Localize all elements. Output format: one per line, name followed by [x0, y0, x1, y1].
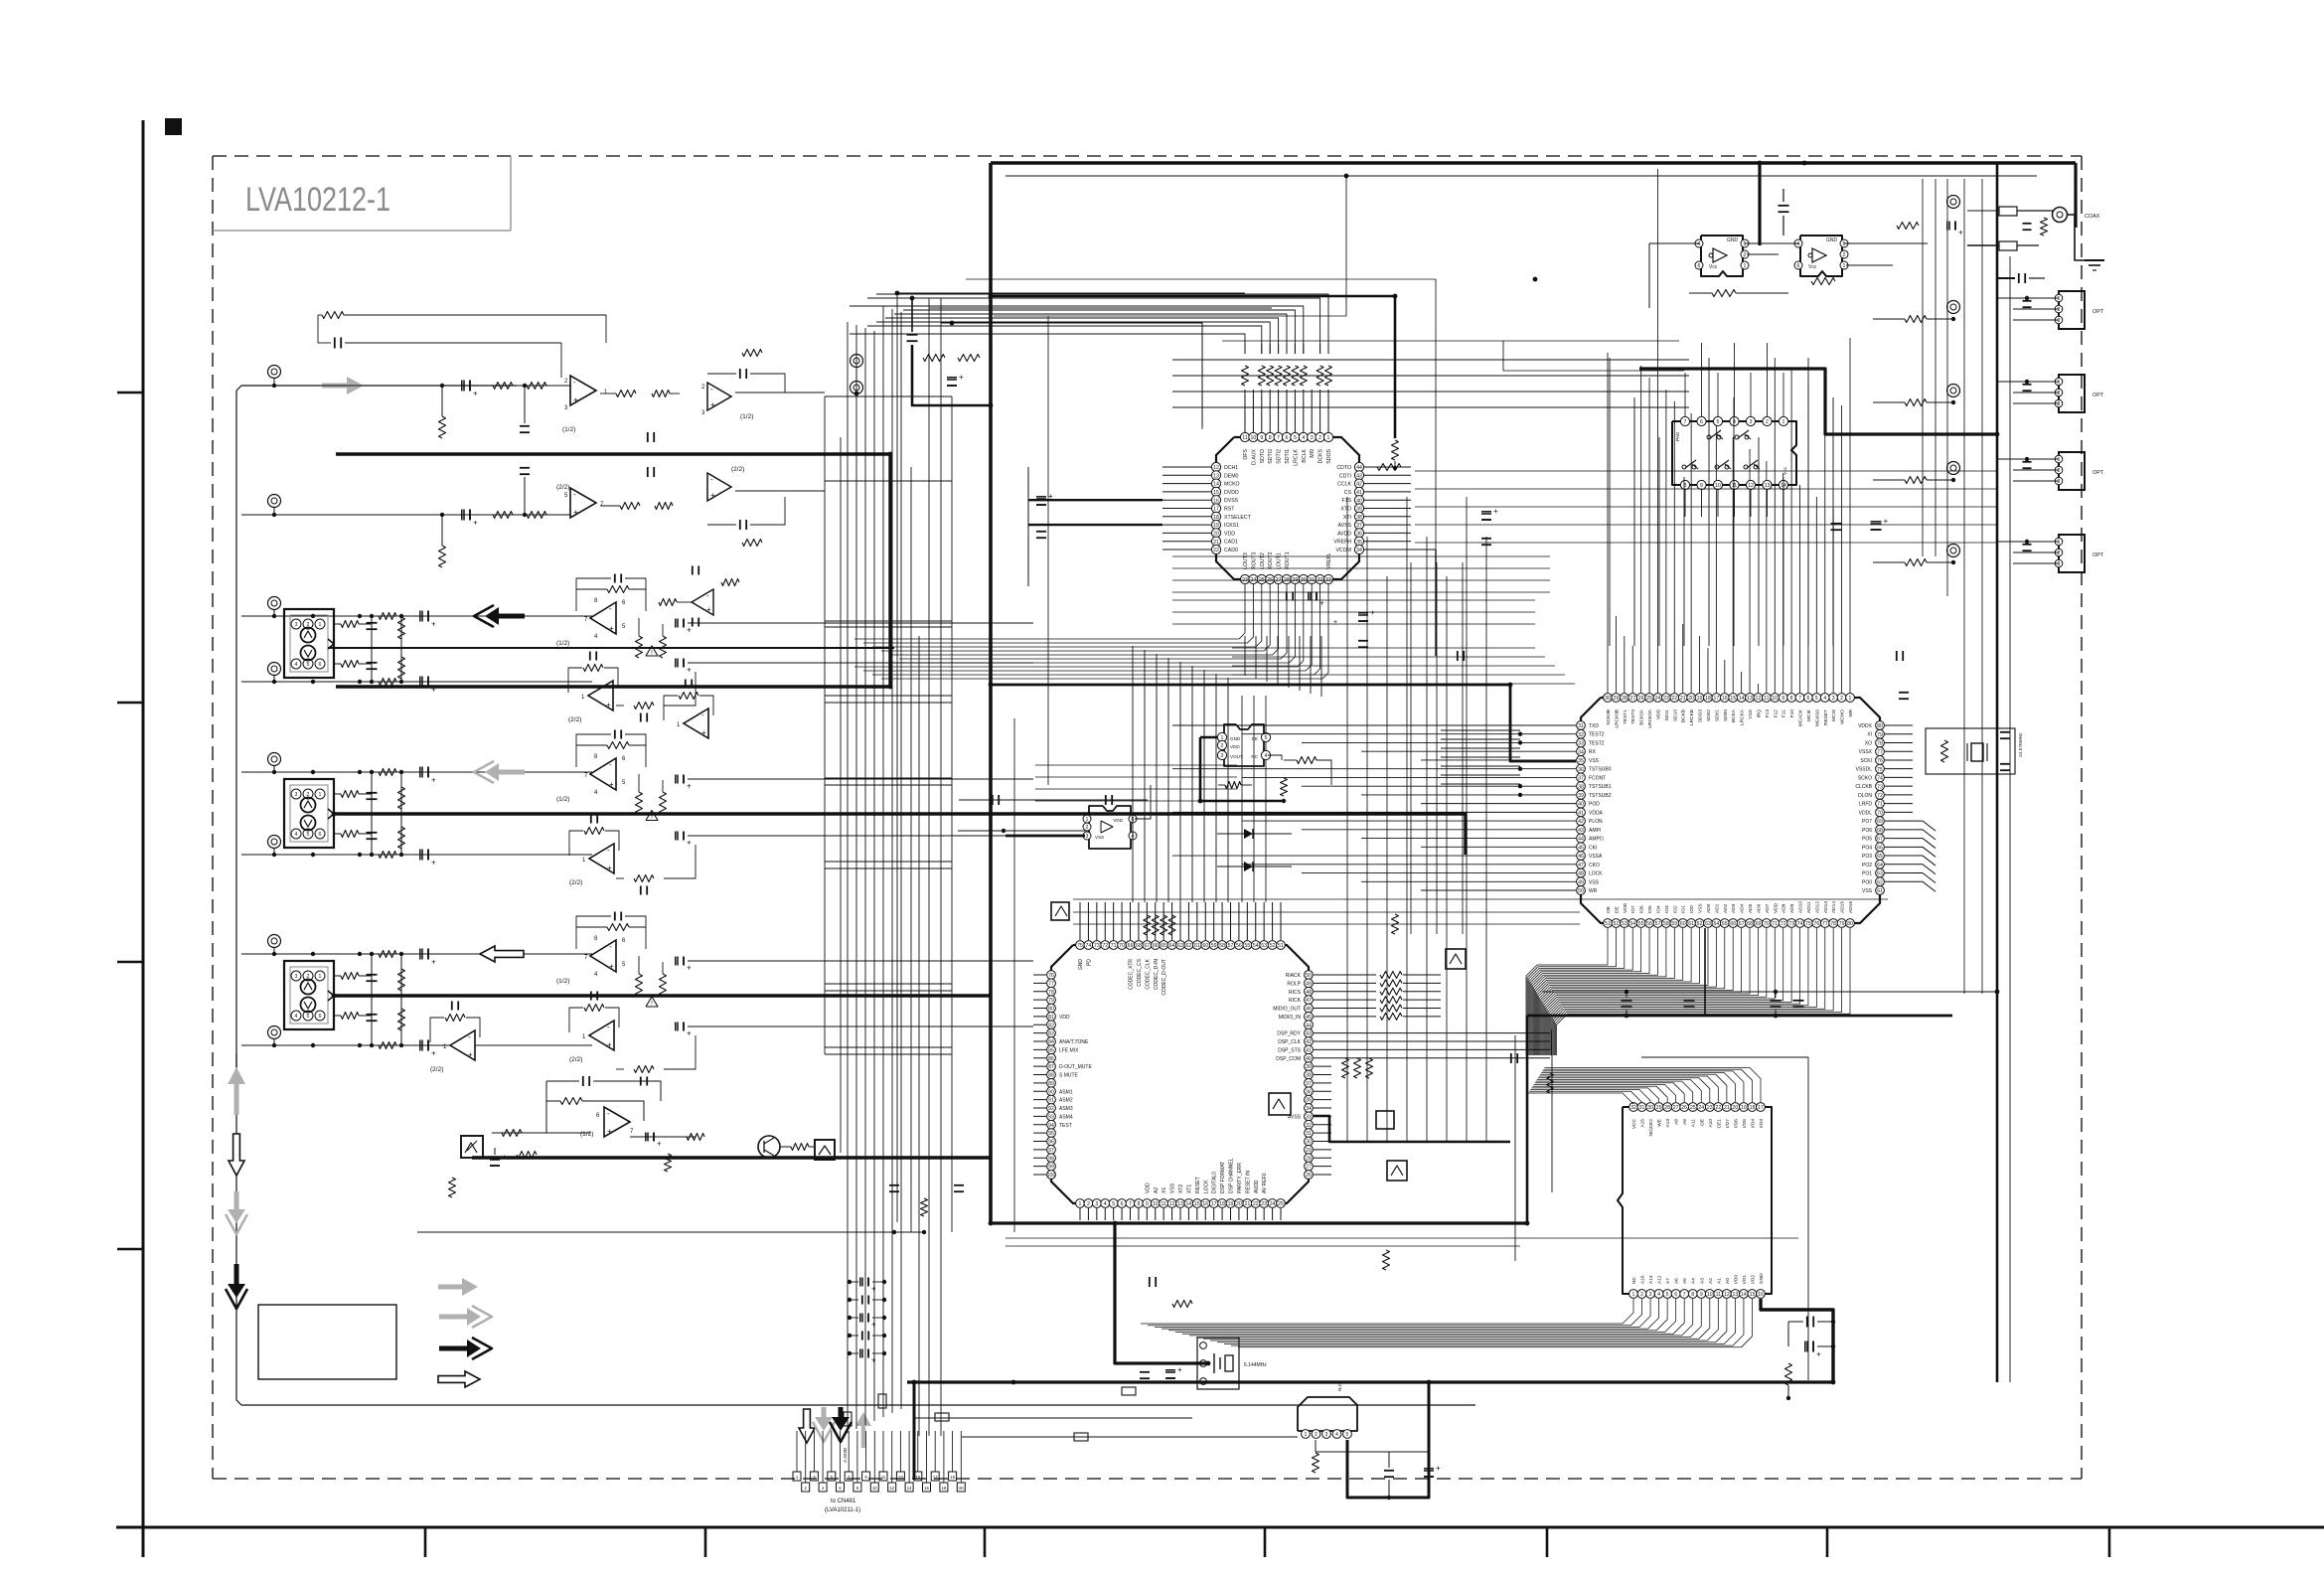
- transistor Q401: [1269, 1093, 1291, 1115]
- wire fb2 2: [664, 696, 678, 720]
- svg-text:+: +: [431, 859, 436, 867]
- svg-text:72: 72: [1102, 943, 1108, 949]
- svg-text:I/O1: I/O1: [1742, 1275, 1748, 1284]
- svg-text:88: 88: [1048, 1073, 1054, 1079]
- wire cv21308: [1299, 636, 1301, 691]
- wire drh771: [1441, 765, 1480, 767]
- svg-text:12: 12: [1724, 1292, 1730, 1298]
- wire dr735: [1441, 729, 1520, 731]
- wire IC402 top 14: [1724, 660, 1726, 693]
- wire g5 in: [492, 1132, 590, 1134]
- svg-text:6: 6: [1674, 1292, 1677, 1298]
- svg-text:78: 78: [1048, 990, 1054, 996]
- wire bt1745: [1733, 397, 1735, 646]
- resistor R210: [1905, 316, 1927, 323]
- resistor Rd1: [1383, 1250, 1390, 1270]
- svg-text:22: 22: [1253, 1201, 1259, 1207]
- svg-text:RESET: RESET: [1823, 709, 1829, 725]
- svg-text:56: 56: [1236, 943, 1242, 949]
- wire gdsp794: [1035, 788, 1237, 790]
- capacitor C209: [685, 680, 687, 689]
- capacitor Cb4: [859, 1349, 861, 1358]
- capacitor C207 electrolytic: [1946, 222, 1948, 231]
- resistor R102v: [439, 546, 446, 567]
- svg-text:15: 15: [1194, 1201, 1200, 1207]
- svg-text:36: 36: [1578, 767, 1584, 773]
- wire IC403 bot 4: [1168, 1299, 1667, 1331]
- svg-text:+: +: [1436, 1464, 1441, 1473]
- gnd symbol: [2085, 259, 2104, 261]
- resistor R112: [742, 350, 762, 357]
- wire cx604: [1172, 599, 1535, 601]
- wire top t: [912, 345, 991, 405]
- svg-text:-: -: [573, 490, 576, 499]
- resistor R402: [341, 1013, 359, 1020]
- wire gdsp770: [1035, 764, 1237, 766]
- svg-text:to CN481: to CN481: [831, 1498, 856, 1504]
- svg-text:IO2: IO2: [1672, 905, 1678, 913]
- svg-text:41: 41: [1356, 490, 1362, 496]
- capacitor C432 electrolytic: [1804, 1341, 1806, 1352]
- svg-text:52: 52: [1614, 921, 1620, 927]
- svg-text:LOUT2: LOUT2: [1260, 552, 1266, 569]
- svg-text:79: 79: [1877, 732, 1883, 738]
- wire IC402 top 9: [1682, 624, 1684, 693]
- svg-text:39: 39: [1578, 793, 1584, 799]
- capacitor C109: [739, 520, 741, 530]
- wire right v2023: [2009, 256, 2011, 1382]
- svg-text:9: 9: [1146, 1201, 1149, 1207]
- transistor Q405: [1446, 949, 1466, 969]
- wire IC301 top 2: [867, 326, 1262, 354]
- svg-text:50: 50: [1306, 973, 1312, 979]
- svg-text:MCKO: MCKO: [1224, 482, 1240, 488]
- svg-text:AVDD: AVDD: [1337, 531, 1351, 537]
- wire ch661: [1232, 656, 1545, 658]
- wire rail r3: [1006, 1245, 1520, 1247]
- wire long y874: [825, 867, 952, 869]
- resistor R107: [322, 312, 344, 319]
- svg-text:+: +: [1048, 492, 1053, 501]
- svg-text:-: -: [607, 846, 610, 855]
- svg-text:OPT: OPT: [2092, 552, 2104, 558]
- svg-text:33: 33: [1306, 1114, 1312, 1120]
- svg-text:14: 14: [1186, 1201, 1192, 1207]
- svg-text:CAD1: CAD1: [1224, 540, 1238, 546]
- svg-text:D-OUT_MUTE: D-OUT_MUTE: [1059, 1064, 1092, 1070]
- IC302 thick feed: [1200, 737, 1284, 801]
- legend arrow black chevron: [467, 1340, 481, 1357]
- signal arrow gray group3: [485, 763, 499, 781]
- capacitor C441: [1384, 1470, 1394, 1472]
- svg-text:63: 63: [1705, 921, 1711, 927]
- svg-text:10: 10: [1251, 435, 1257, 441]
- svg-text:20: 20: [1733, 1105, 1739, 1111]
- wire IC403 bot 1: [1148, 1299, 1642, 1326]
- wire IC402 bot 15: [1542, 928, 1733, 1055]
- svg-text:AD2: AD2: [1723, 903, 1729, 913]
- wire IC403 top 13: [1542, 1071, 1744, 1102]
- wire IC402 top 19: [1766, 461, 1768, 693]
- left border tick y1257: [117, 1248, 143, 1251]
- wire loop v1355: [994, 176, 1346, 316]
- capacitor C424: [1896, 651, 1898, 661]
- svg-text:GND: GND: [1078, 959, 1084, 971]
- IC203 switch symbols: [1707, 435, 1711, 439]
- svg-text:AD11: AD11: [1806, 901, 1812, 913]
- wire IC402 top 23: [1799, 485, 1801, 693]
- svg-text:26: 26: [1638, 696, 1644, 702]
- wire IC402 left 1: [1242, 733, 1576, 735]
- wire IC402 bot 27: [1554, 928, 1833, 1055]
- svg-text:I/O6: I/O6: [1733, 1119, 1739, 1128]
- wire group4 lower: [241, 1044, 592, 1046]
- wire IC402 left 19: [1421, 889, 1576, 891]
- wire top h3: [941, 323, 1202, 427]
- svg-text:TSTSUB2: TSTSUB2: [1589, 793, 1612, 799]
- capacitor C208 electrolytic: [675, 619, 677, 628]
- resistor R213: [634, 703, 654, 709]
- svg-text:AMPO: AMPO: [1589, 837, 1604, 843]
- svg-text:1: 1: [319, 792, 322, 798]
- wire IC402 bot 7: [1533, 928, 1666, 1055]
- svg-text:(1/2): (1/2): [556, 640, 569, 647]
- svg-text:44: 44: [1356, 465, 1362, 471]
- svg-text:55: 55: [1638, 921, 1644, 927]
- svg-text:2: 2: [1843, 252, 1846, 258]
- resistor R303: [398, 787, 405, 809]
- resistor R204: [398, 657, 405, 679]
- capacitor C310: [640, 886, 642, 895]
- svg-text:23: 23: [1261, 1201, 1267, 1207]
- svg-text:20: 20: [1688, 696, 1694, 702]
- svg-text:MI9: MI9: [1310, 449, 1316, 458]
- IC401 bottom stubs: [1079, 1208, 1081, 1220]
- resistor R202: [341, 661, 359, 668]
- wire chb560: [1172, 555, 1550, 557]
- resistor Rd2: [1547, 1073, 1554, 1093]
- svg-text:30: 30: [1647, 1105, 1653, 1111]
- svg-text:A4: A4: [1691, 1278, 1697, 1284]
- svg-text:VOUT: VOUT: [1230, 754, 1243, 759]
- svg-text:SCKO: SCKO: [1858, 775, 1872, 781]
- svg-text:MIDIO_IN: MIDIO_IN: [1279, 1015, 1302, 1021]
- capacitor Cb3: [861, 1332, 863, 1340]
- wire dr762: [1441, 756, 1520, 758]
- svg-text:2: 2: [2058, 551, 2061, 556]
- svg-text:(2/2): (2/2): [568, 716, 581, 723]
- svg-text:+: +: [431, 620, 436, 629]
- svg-text:7: 7: [1684, 419, 1687, 425]
- svg-text:3: 3: [2058, 479, 2061, 485]
- svg-text:RICK: RICK: [1289, 998, 1302, 1004]
- svg-text:81: 81: [1048, 1015, 1054, 1021]
- svg-text:37: 37: [1306, 1081, 1312, 1087]
- wire top h1: [897, 292, 1245, 294]
- svg-text:Vcc: Vcc: [1709, 264, 1718, 270]
- capacitor C401: [367, 974, 378, 976]
- svg-text:68: 68: [1136, 943, 1142, 949]
- wire g1 upper: [241, 385, 570, 387]
- resistor R203: [1897, 223, 1919, 230]
- wire IC402 top 27: [1832, 509, 1834, 693]
- svg-text:90: 90: [1048, 1089, 1054, 1095]
- svg-text:PO0: PO0: [1862, 879, 1872, 885]
- resistor R505: [665, 1154, 672, 1172]
- IC403 top pins: [1629, 1103, 1638, 1112]
- svg-text:96: 96: [1048, 1140, 1054, 1146]
- ferrite beads bottom: [844, 1412, 852, 1426]
- node J4a input ring: [268, 935, 281, 948]
- svg-text:+: +: [431, 776, 436, 785]
- svg-text:39: 39: [1306, 1064, 1312, 1070]
- svg-text:4: 4: [1104, 1201, 1107, 1207]
- resistor R322: [1281, 778, 1288, 796]
- svg-text:12: 12: [889, 1486, 894, 1491]
- svg-text:65: 65: [1877, 854, 1883, 860]
- svg-text:71: 71: [1877, 802, 1883, 808]
- svg-text:11: 11: [1161, 1201, 1165, 1207]
- wire CN481 pin9 riser: [865, 1431, 867, 1472]
- svg-text:MR: MR: [1848, 709, 1854, 716]
- wire IC402 left 7: [1302, 785, 1576, 787]
- wire IC403 bot 12: [1224, 1299, 1735, 1343]
- resistor R201: [341, 621, 359, 628]
- signal arrow black group2: [485, 607, 499, 625]
- bottom tick x710: [704, 1527, 707, 1557]
- svg-text:75: 75: [1877, 767, 1883, 773]
- wire IC402 left 9: [1421, 803, 1576, 805]
- wire loop2: [956, 323, 1202, 429]
- op-amp U4A: [590, 940, 616, 972]
- resistor R209: [721, 579, 739, 586]
- svg-text:3: 3: [1832, 696, 1835, 702]
- svg-text:LRCKA: LRCKA: [1740, 709, 1746, 725]
- svg-text:42: 42: [1356, 482, 1362, 488]
- svg-text:CCLK: CCLK: [1337, 482, 1351, 488]
- wire tr394: [1172, 391, 1689, 393]
- op-amp U4C: [450, 1030, 475, 1060]
- resistor R304: [398, 827, 405, 849]
- wire IC402 left 18: [1361, 880, 1576, 882]
- svg-text:99: 99: [1048, 1165, 1054, 1171]
- svg-text:VSSDL: VSSDL: [1856, 767, 1873, 773]
- resistor R213: [1905, 559, 1927, 566]
- resistor R403: [398, 969, 405, 991]
- IC202 inverter B pins: [1794, 239, 1802, 247]
- wire cn402 top: [1316, 1451, 1429, 1453]
- resistor R205: [2041, 218, 2048, 236]
- svg-text:11: 11: [881, 1475, 886, 1480]
- wire cv1176: [1167, 658, 1169, 902]
- svg-text:VDD: VDD: [1623, 902, 1628, 913]
- resistor R412: [584, 1005, 604, 1012]
- svg-text:40: 40: [1356, 498, 1362, 504]
- wire IC403 bot 8: [1196, 1299, 1701, 1338]
- wire CN481 pin8 riser: [856, 1431, 858, 1483]
- IC401 left pins: [1047, 971, 1056, 980]
- wire group2 out a: [688, 622, 1033, 624]
- wire IC301 bot 1: [863, 584, 1253, 643]
- svg-text:-: -: [607, 1023, 610, 1031]
- wire IC402 left 3: [1361, 750, 1576, 752]
- svg-text:6.144MHz: 6.144MHz: [1244, 1362, 1267, 1368]
- crystal box: [1197, 1338, 1239, 1389]
- svg-text:OPT: OPT: [2092, 393, 2104, 398]
- svg-text:IRQ: IRQ: [1756, 709, 1762, 718]
- capacitor C331: [992, 795, 994, 805]
- svg-text:70: 70: [1764, 921, 1770, 927]
- wire IC403 bot 13: [1231, 1299, 1744, 1345]
- svg-text:73: 73: [1877, 784, 1883, 790]
- wire cv21286: [1277, 636, 1279, 685]
- capacitor Cb0: [859, 1278, 861, 1287]
- vertical wire to legend arrows: [235, 1053, 237, 1067]
- svg-text:BCKB: BCKB: [1681, 709, 1687, 722]
- svg-text:I/O5: I/O5: [1742, 1119, 1748, 1128]
- svg-text:1: 1: [1305, 1432, 1308, 1438]
- capacitor C410: [640, 1077, 642, 1086]
- svg-text:46: 46: [1578, 854, 1584, 860]
- wire CN481 pin2 riser: [805, 1431, 807, 1483]
- transistor Q402: [1387, 1161, 1407, 1181]
- bottom tick x2123: [2108, 1527, 2111, 1557]
- wire group3 lower: [241, 854, 592, 856]
- svg-text:4: 4: [1302, 435, 1305, 441]
- svg-text:43: 43: [1578, 828, 1584, 834]
- connector OPT1 pins: [2055, 294, 2063, 302]
- bus thick analog5: [472, 1156, 990, 1159]
- svg-text:NC|CE2: NC|CE2: [1648, 1119, 1654, 1137]
- wire fb loop 2: [576, 589, 607, 611]
- bus thick sram col: [1526, 1016, 1529, 1223]
- svg-text:10: 10: [872, 1486, 877, 1491]
- svg-text:7: 7: [1129, 1201, 1132, 1207]
- svg-text:-: -: [607, 1109, 610, 1118]
- wire group3 link: [616, 877, 624, 879]
- wire cvb1456: [1446, 576, 1448, 1142]
- svg-text:-: -: [710, 475, 713, 484]
- wire IC402 top 18: [1757, 684, 1759, 693]
- resistor R201: [1712, 290, 1736, 297]
- wire res column: [400, 616, 402, 682]
- svg-text:71: 71: [1772, 921, 1778, 927]
- svg-text:AVDD: AVDD: [1254, 1180, 1260, 1193]
- svg-text:25: 25: [1690, 1105, 1696, 1111]
- svg-text:TSTSUB0: TSTSUB0: [1589, 767, 1612, 773]
- wire bt1770: [1758, 437, 1760, 646]
- wire fb loop 4: [576, 927, 607, 949]
- wire loop v1055: [1047, 316, 1049, 785]
- svg-text:1: 1: [1327, 435, 1330, 441]
- wire dr789: [1441, 783, 1520, 785]
- svg-text:79: 79: [1839, 921, 1845, 927]
- capacitor C101 electrolytic: [461, 381, 463, 392]
- svg-text:+: +: [710, 400, 715, 409]
- capacitor Cb1: [861, 1296, 863, 1305]
- wire sw t1746: [1734, 343, 1736, 416]
- svg-text:CDTO: CDTO: [1336, 465, 1351, 471]
- svg-text:32: 32: [1630, 1105, 1636, 1111]
- svg-text:8: 8: [1269, 435, 1272, 441]
- svg-text:29: 29: [1614, 696, 1620, 702]
- svg-text:+: +: [609, 624, 614, 633]
- svg-text:VDD: VDD: [1773, 902, 1779, 913]
- svg-text:CODEC_D-IN: CODEC_D-IN: [1154, 959, 1160, 991]
- dashed board outline frame: [213, 155, 2082, 157]
- svg-text:LVA10212-1: LVA10212-1: [245, 181, 390, 219]
- svg-text:86: 86: [1048, 1056, 1054, 1062]
- svg-text:69: 69: [1756, 921, 1762, 927]
- svg-text:CAD0: CAD0: [1224, 548, 1238, 553]
- wire rail r4: [1073, 911, 1580, 913]
- black index square: [165, 118, 182, 135]
- svg-text:(2/2): (2/2): [731, 466, 744, 473]
- svg-text:AD7: AD7: [1765, 903, 1771, 913]
- svg-text:DCKS: DCKS: [1318, 448, 1324, 463]
- svg-text:+: +: [871, 1321, 876, 1330]
- wire rail r2: [1006, 1237, 1798, 1239]
- resistor ladder right of dsp: [1342, 1058, 1349, 1078]
- wire IC402 bot 21: [1548, 928, 1783, 1055]
- wire cv1224: [1215, 674, 1217, 902]
- svg-text:WE: WE: [1657, 1119, 1663, 1127]
- wire IC403 bot 2: [1155, 1299, 1650, 1327]
- svg-text:44: 44: [1306, 1023, 1312, 1028]
- resistor Rt1: [923, 355, 945, 362]
- capacitor C203 electrolytic: [419, 611, 421, 622]
- arrow black down: [228, 1284, 245, 1298]
- svg-text:+: +: [871, 1356, 876, 1365]
- svg-text:MIDIO_OUT: MIDIO_OUT: [1273, 1007, 1301, 1013]
- wire cv1188: [1179, 662, 1181, 902]
- wire IC402 bot 12: [1539, 928, 1708, 1055]
- svg-text:17: 17: [1213, 507, 1219, 513]
- capacitor C302: [367, 832, 378, 834]
- wire vert x846: [840, 437, 842, 1153]
- wire CN481 pin4 riser: [822, 1431, 824, 1483]
- wire IC402 bot 22: [1549, 928, 1791, 1055]
- svg-text:COAX: COAX: [2085, 214, 2100, 220]
- bus thick top: [991, 161, 2076, 165]
- capacitor C304 electrolytic: [419, 850, 421, 861]
- IC301 left pins: [1211, 462, 1220, 471]
- wire bt1795: [1782, 477, 1784, 646]
- svg-text:6: 6: [319, 662, 322, 668]
- IC403 body: [1618, 1107, 1772, 1294]
- svg-text:3: 3: [1221, 753, 1224, 759]
- svg-text:76: 76: [1813, 921, 1819, 927]
- svg-text:3: 3: [1649, 1292, 1652, 1298]
- wire chr474: [1415, 470, 1997, 472]
- svg-text:6: 6: [319, 1014, 322, 1020]
- svg-text:4: 4: [1698, 241, 1701, 247]
- svg-text:35: 35: [1578, 758, 1584, 764]
- connector CN31: [284, 779, 334, 848]
- IC203 bottom pins: [1680, 480, 1689, 489]
- svg-text:A9: A9: [1682, 1119, 1688, 1125]
- svg-text:DSP FORMAT: DSP FORMAT: [1220, 1162, 1226, 1193]
- svg-text:IO6: IO6: [1639, 905, 1645, 913]
- wire chb572: [1172, 567, 1550, 569]
- resistor R503: [517, 1152, 537, 1159]
- svg-text:ROUT3: ROUT3: [1251, 552, 1257, 569]
- wire cv21275: [1266, 636, 1268, 682]
- resistor R106: [527, 512, 546, 519]
- svg-text:18: 18: [1705, 696, 1711, 702]
- IC302 pins: [1217, 732, 1226, 741]
- wires IC303 in: [958, 830, 1087, 832]
